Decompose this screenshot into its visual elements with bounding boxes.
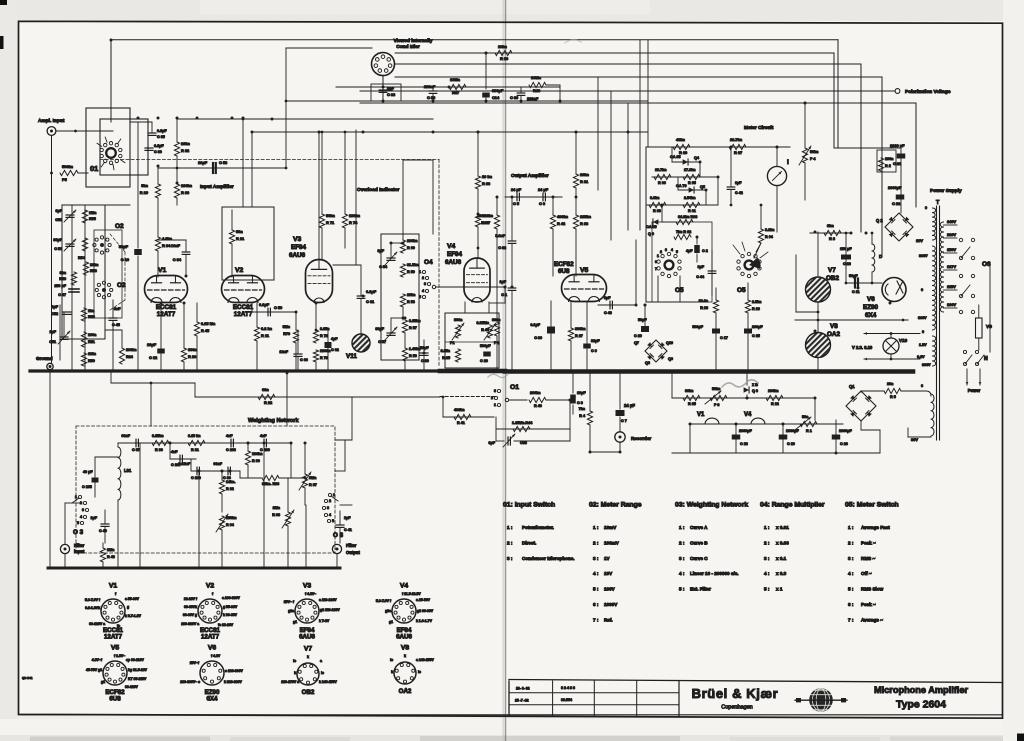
svg-text:O2: O2	[115, 223, 124, 230]
svg-text:k 7-8V: k 7-8V	[319, 619, 330, 623]
svg-text:g 55-99V: g 55-99V	[223, 605, 238, 609]
svg-text:R 96: R 96	[252, 459, 260, 463]
svg-text:20kn: 20kn	[181, 141, 190, 146]
svg-text:0: 0	[925, 206, 927, 210]
svg-text:40 μF: 40 μF	[83, 470, 93, 474]
svg-text:150kn: 150kn	[226, 516, 237, 520]
svg-text:50kn: 50kn	[810, 150, 819, 154]
svg-text:Curve B: Curve B	[690, 540, 708, 545]
svg-text:5: 5	[332, 519, 334, 523]
svg-text:R 56: R 56	[409, 354, 417, 358]
svg-text:V6: V6	[867, 296, 875, 303]
svg-text:05: Meter Switch: 05: Meter Switch	[845, 502, 899, 509]
svg-text:Type 2604: Type 2604	[896, 699, 946, 711]
svg-text:50μF: 50μF	[638, 318, 647, 322]
svg-text:C 62: C 62	[331, 348, 339, 352]
svg-text:C 54: C 54	[379, 265, 388, 269]
svg-text:V1: V1	[697, 412, 705, 418]
svg-text:C 41: C 41	[344, 528, 352, 532]
svg-text:5 :: 5 :	[764, 587, 770, 592]
svg-text:24 μF: 24 μF	[624, 403, 635, 408]
svg-text:15V~f: 15V~f	[190, 661, 200, 665]
svg-text:R 29: R 29	[140, 190, 149, 195]
svg-text:a: a	[320, 659, 322, 663]
svg-text:R 46: R 46	[481, 328, 489, 332]
svg-text:V7: V7	[304, 646, 313, 653]
svg-text:230-270V a: 230-270V a	[281, 680, 299, 684]
svg-text:C 22: C 22	[892, 201, 901, 206]
svg-text:4nF: 4nF	[171, 450, 178, 454]
svg-text:1 :: 1 :	[764, 525, 770, 530]
svg-text:1kn: 1kn	[88, 309, 95, 313]
svg-text:3.15kn: 3.15kn	[152, 434, 164, 438]
svg-text:C52: C52	[51, 312, 58, 316]
svg-text:V4: V4	[400, 583, 409, 590]
svg-text:R 60: R 60	[407, 246, 415, 250]
svg-text:Output Amplifier: Output Amplifier	[511, 173, 549, 179]
svg-text:V1: V1	[158, 267, 167, 274]
svg-text:5 :: 5 :	[848, 587, 854, 592]
svg-text:3: 3	[327, 506, 329, 510]
svg-text:Brüel & Kjær: Brüel & Kjær	[692, 686, 779, 701]
svg-text:2: 2	[329, 499, 331, 503]
svg-text:R 28: R 28	[752, 307, 760, 311]
svg-text:C 15: C 15	[752, 334, 760, 338]
svg-text:1μF: 1μF	[51, 305, 58, 309]
svg-text:L91: L91	[124, 468, 132, 473]
svg-text:2: 2	[660, 250, 662, 254]
svg-text:800kn: 800kn	[575, 327, 586, 331]
svg-text:Cond Micr: Cond Micr	[396, 44, 420, 50]
svg-text:03: Weighting Network: 03: Weighting Network	[675, 502, 748, 509]
svg-text:400kn: 400kn	[454, 408, 465, 412]
svg-text:1μF: 1μF	[49, 330, 56, 334]
svg-text:Average ~: Average ~	[861, 617, 883, 622]
svg-text:12AT7: 12AT7	[157, 311, 176, 318]
svg-text:R 90: R 90	[155, 448, 163, 452]
svg-text:10Mn: 10Mn	[531, 75, 542, 80]
svg-text:ap 90-110V: ap 90-110V	[126, 658, 144, 662]
svg-text:8.9kn: 8.9kn	[650, 196, 660, 200]
svg-text:90-110V: 90-110V	[125, 685, 139, 689]
svg-text:6 :: 6 :	[593, 602, 599, 607]
svg-text:0.1μF: 0.1μF	[530, 323, 540, 327]
svg-text:01: Input Switch: 01: Input Switch	[503, 502, 555, 509]
svg-text:f 4.8V: f 4.8V	[211, 654, 221, 658]
svg-text:C 13: C 13	[843, 262, 851, 266]
svg-text:C 44: C 44	[696, 275, 705, 279]
svg-text:4μF: 4μF	[331, 337, 338, 341]
svg-text:15V~ f: 15V~ f	[284, 600, 295, 604]
svg-text:500μF: 500μF	[480, 344, 491, 348]
svg-text:2 :: 2 :	[679, 540, 685, 545]
svg-text:Polarization Voltage: Polarization Voltage	[905, 89, 951, 95]
svg-text:C 3: C 3	[577, 401, 583, 405]
svg-text:Off ~: Off ~	[861, 571, 872, 576]
svg-text:14kn.: 14kn.	[226, 480, 235, 484]
svg-text:C 30: C 30	[534, 336, 542, 340]
svg-text:290-330V a: 290-330V a	[181, 622, 199, 626]
svg-text:O5: O5	[675, 287, 684, 294]
svg-text:EZ90: EZ90	[863, 304, 879, 311]
svg-text:24 μF: 24 μF	[538, 187, 549, 192]
svg-text:32kn. R93: 32kn. R93	[262, 482, 279, 486]
svg-text:V5: V5	[580, 267, 589, 274]
svg-text:C 7: C 7	[621, 419, 627, 423]
svg-text:10kn: 10kn	[580, 172, 589, 177]
svg-text:V3: V3	[293, 236, 302, 243]
svg-text:1 :: 1 :	[679, 525, 685, 530]
svg-text:1: 1	[419, 270, 421, 274]
svg-text:6AU6: 6AU6	[289, 252, 306, 259]
svg-text:Meter Circuit: Meter Circuit	[744, 125, 774, 131]
svg-text:R 72: R 72	[320, 334, 328, 338]
svg-text:1 :: 1 :	[848, 525, 854, 530]
svg-text:100V: 100V	[947, 302, 956, 307]
svg-text:Condenser Microphone.: Condenser Microphone.	[522, 556, 575, 561]
svg-text:C 58: C 58	[219, 160, 228, 165]
svg-text:C 32: C 32	[498, 246, 506, 250]
svg-text:R 42: R 42	[557, 221, 566, 226]
svg-text:Q10: Q10	[666, 341, 673, 345]
svg-text:R 67: R 67	[734, 150, 742, 155]
svg-text:Average Fast: Average Fast	[861, 525, 890, 530]
svg-text:k 1.0-1.7V: k 1.0-1.7V	[416, 619, 433, 623]
svg-text:C 17: C 17	[720, 336, 728, 340]
svg-text:3kn: 3kn	[60, 271, 67, 275]
svg-text:R 30: R 30	[500, 56, 508, 61]
svg-text:R 66: R 66	[658, 181, 666, 185]
svg-text:R49: R49	[59, 277, 66, 281]
svg-text:50μF: 50μF	[119, 244, 129, 249]
svg-text:R 22: R 22	[264, 400, 273, 405]
svg-text:V8: V8	[830, 323, 838, 330]
svg-text:4μF: 4μF	[686, 249, 693, 253]
svg-text:18V: 18V	[916, 238, 923, 243]
svg-text:19- 6- 62: 19- 6- 62	[516, 687, 530, 691]
svg-text:1: 1	[75, 495, 77, 499]
svg-text:C 19: C 19	[787, 442, 795, 446]
svg-text:C 30: C 30	[421, 359, 429, 363]
svg-text:3.15kn: 3.15kn	[409, 319, 421, 323]
svg-text:10kn: 10kn	[498, 44, 507, 49]
svg-text:3 :: 3 :	[507, 556, 513, 561]
svg-text:R51: R51	[88, 340, 95, 344]
svg-text:12AT7: 12AT7	[234, 311, 253, 318]
svg-text:500kn: 500kn	[62, 164, 74, 169]
svg-text:5.9-7.0V f: 5.9-7.0V f	[85, 598, 101, 602]
svg-text:R54: R54	[78, 256, 86, 260]
svg-text:3pF: 3pF	[55, 209, 62, 213]
svg-text:23.7kn: 23.7kn	[730, 137, 743, 142]
svg-text:Recorder: Recorder	[631, 436, 651, 441]
svg-text:3.15Mn: 3.15Mn	[476, 321, 489, 325]
svg-text:R 39: R 39	[481, 221, 489, 225]
svg-text:24 μF: 24 μF	[511, 187, 522, 192]
svg-text:R 94: R 94	[226, 523, 235, 527]
svg-text:R55: R55	[89, 217, 96, 221]
svg-text:3 :: 3 :	[679, 556, 685, 561]
svg-text:4: 4	[671, 248, 673, 252]
svg-text:45-75V g2: 45-75V g2	[86, 668, 102, 672]
svg-text:5 :: 5 :	[593, 587, 599, 592]
svg-text:OA2: OA2	[827, 331, 840, 338]
svg-text:10kn: 10kn	[407, 293, 416, 297]
svg-text:OB2: OB2	[826, 275, 839, 282]
svg-text:1.25Mn.R44: 1.25Mn.R44	[512, 421, 533, 425]
svg-text:1 :: 1 :	[593, 525, 599, 530]
svg-text:O 3: O 3	[73, 529, 84, 536]
svg-text:C55: C55	[520, 441, 527, 445]
svg-text:Filter: Filter	[346, 543, 357, 548]
svg-text:12-13V f: 12-13V f	[184, 597, 198, 601]
svg-text:Input Amplifier: Input Amplifier	[200, 184, 234, 190]
svg-text:1μF: 1μF	[344, 516, 351, 520]
svg-text:C 29: C 29	[634, 334, 642, 338]
svg-text:50pF: 50pF	[420, 346, 429, 350]
svg-text:k 0.7-1.2V: k 0.7-1.2V	[125, 614, 142, 618]
svg-text:x 1: x 1	[776, 587, 783, 592]
svg-text:6: 6	[655, 260, 657, 264]
svg-text:10kn: 10kn	[90, 263, 99, 267]
svg-text:10μF: 10μF	[147, 342, 157, 347]
svg-text:4: 4	[80, 515, 82, 519]
svg-text:R 1: R 1	[806, 429, 812, 433]
svg-text:ECC81: ECC81	[156, 304, 177, 311]
svg-text:6AU6: 6AU6	[299, 634, 315, 641]
svg-text:30pF: 30pF	[375, 327, 384, 331]
svg-text:C 60: C 60	[300, 358, 308, 362]
svg-text:3pF: 3pF	[377, 249, 384, 253]
svg-text:Z B: Z B	[752, 383, 758, 387]
svg-text:1300n: 1300n	[320, 349, 331, 353]
svg-text:90-120V a: 90-120V a	[89, 622, 105, 626]
svg-text:ECF82: ECF82	[554, 261, 574, 268]
svg-text:P 4: P 4	[810, 157, 816, 161]
svg-text:3.15nF: 3.15nF	[178, 462, 190, 466]
svg-text:C 35: C 35	[157, 135, 165, 139]
svg-text:R 26: R 26	[188, 354, 197, 359]
svg-text:30pF: 30pF	[53, 238, 62, 242]
svg-text:g1: g1	[389, 620, 393, 624]
svg-text:2 :: 2 :	[764, 540, 770, 545]
svg-text:1: 1	[494, 403, 496, 407]
svg-text:R52: R52	[88, 315, 95, 319]
svg-text:EF94: EF94	[447, 251, 463, 258]
svg-text:2000μF: 2000μF	[888, 185, 902, 190]
svg-text:C 6: C 6	[539, 201, 546, 206]
svg-text:111n: 111n	[88, 352, 97, 356]
svg-text:115V: 115V	[947, 284, 956, 289]
svg-text:k: k	[391, 670, 393, 674]
svg-text:150V: 150V	[947, 247, 956, 252]
svg-text:V1: V1	[109, 583, 118, 590]
svg-text:250 pF: 250 pF	[54, 284, 66, 288]
svg-text:R 57: R 57	[409, 326, 417, 330]
svg-text:2.54kn: 2.54kn	[684, 196, 696, 200]
svg-text:RMS Slow: RMS Slow	[861, 587, 884, 592]
svg-text:100kn: 100kn	[407, 239, 418, 243]
svg-text:4nF: 4nF	[226, 434, 233, 438]
svg-text:63n: 63n	[262, 387, 269, 392]
svg-text:4 :: 4 :	[679, 571, 685, 576]
svg-text:7kn: 7kn	[579, 407, 586, 411]
svg-text:Potentiometer.: Potentiometer.	[522, 525, 554, 530]
svg-text:R 38: R 38	[580, 221, 589, 226]
svg-text:Direct.: Direct.	[522, 540, 536, 545]
svg-text:C 20: C 20	[840, 442, 848, 446]
svg-text:200kn: 200kn	[126, 348, 137, 352]
svg-text:5Mn: 5Mn	[283, 325, 291, 329]
svg-text:R 65: R 65	[688, 181, 696, 185]
svg-text:12AT7: 12AT7	[104, 634, 123, 641]
svg-text:k 320-380V: k 320-380V	[224, 680, 242, 684]
svg-text:300V: 300V	[918, 316, 927, 320]
svg-text:C51: C51	[49, 340, 56, 344]
svg-text:100n: 100n	[88, 333, 97, 337]
svg-text:3.15n: 3.15n	[441, 349, 451, 353]
svg-text:12AT7: 12AT7	[201, 634, 220, 641]
svg-text:R 11: R 11	[261, 333, 270, 338]
svg-text:2: 2	[422, 276, 424, 280]
svg-text:04: Range Multiplier: 04: Range Multiplier	[760, 502, 825, 509]
svg-text:6U8: 6U8	[558, 268, 570, 275]
svg-text:C53: C53	[55, 218, 62, 222]
svg-text:6.2 kn: 6.2 kn	[261, 326, 273, 331]
svg-text:EF94: EF94	[291, 244, 307, 251]
svg-text:Ground: Ground	[36, 356, 53, 361]
svg-text:R 45: R 45	[201, 328, 210, 333]
svg-text:Ampl. Input: Ampl. Input	[38, 118, 65, 124]
svg-text:V11: V11	[346, 353, 357, 360]
svg-text:34.3kn R68: 34.3kn R68	[678, 215, 697, 219]
svg-text:100kn: 100kn	[181, 183, 193, 188]
svg-text:N: N	[984, 356, 988, 362]
svg-text:63nF: 63nF	[213, 462, 222, 466]
svg-text:V9: V9	[986, 324, 992, 330]
svg-text:1000μF: 1000μF	[839, 429, 852, 433]
svg-text:Viewed internally: Viewed internally	[393, 38, 432, 44]
svg-text:6AU6: 6AU6	[396, 634, 412, 641]
svg-text:Q8: Q8	[645, 361, 650, 365]
svg-text:8μF: 8μF	[604, 296, 611, 300]
svg-text:a: a	[405, 687, 407, 691]
svg-text:50kn: 50kn	[326, 213, 335, 218]
svg-text:10nF: 10nF	[171, 243, 181, 248]
svg-text:C 2: C 2	[702, 249, 708, 253]
svg-text:0: 0	[921, 384, 923, 388]
svg-text:R 25: R 25	[442, 356, 450, 360]
svg-text:1Mn: 1Mn	[107, 548, 115, 552]
svg-text:Ext. Filter: Ext. Filter	[690, 587, 711, 592]
svg-text:280-360V~ e: 280-360V~ e	[180, 680, 200, 684]
svg-text:10mV: 10mV	[604, 525, 617, 530]
svg-text:Weighting Network: Weighting Network	[248, 418, 299, 424]
svg-text:0.8-1.3Vk: 0.8-1.3Vk	[85, 606, 100, 610]
svg-text:5: 5	[419, 295, 421, 299]
svg-text:R 35: R 35	[688, 402, 696, 406]
svg-text:a 290-330V: a 290-330V	[222, 596, 240, 600]
svg-text:f 4.8V~: f 4.8V~	[305, 592, 316, 596]
svg-text:3 :: 3 :	[764, 556, 770, 561]
svg-text:C 1: C 1	[501, 293, 507, 297]
svg-text:2 :: 2 :	[593, 540, 599, 545]
svg-text:a 110-130V: a 110-130V	[319, 598, 337, 602]
svg-text:6.3V: 6.3V	[917, 355, 925, 359]
svg-text:50n: 50n	[802, 415, 809, 419]
svg-text:R 59: R 59	[407, 270, 415, 274]
svg-text:5.9-7.0V f: 5.9-7.0V f	[376, 599, 392, 603]
svg-text:0.1μF: 0.1μF	[154, 144, 164, 148]
svg-text:V7: V7	[828, 267, 836, 274]
svg-text:Q1: Q1	[849, 384, 855, 389]
svg-text:220nF: 220nF	[527, 96, 539, 101]
svg-text:e 280-360V: e 280-360V	[225, 669, 243, 673]
svg-text:R 27: R 27	[575, 334, 583, 338]
svg-text:5.6nF: 5.6nF	[495, 234, 505, 238]
svg-text:2 :: 2 :	[507, 540, 513, 545]
svg-text:R 97: R 97	[309, 483, 317, 487]
svg-text:k: k	[294, 671, 296, 675]
svg-text:ic: ic	[418, 670, 421, 674]
svg-text:48kn: 48kn	[676, 137, 685, 142]
svg-text:800n: 800n	[188, 347, 197, 352]
svg-text:R48: R48	[533, 88, 541, 93]
svg-text:R50: R50	[88, 359, 95, 363]
svg-text:QB 0041: QB 0041	[22, 676, 33, 680]
svg-text:C 43: C 43	[604, 311, 612, 315]
svg-text:3pF: 3pF	[488, 441, 495, 445]
svg-text:8 2 4 3 3: 8 2 4 3 3	[561, 686, 575, 690]
svg-text:7 :: 7 :	[593, 617, 599, 622]
svg-text:1000μF: 1000μF	[739, 429, 752, 433]
svg-text:100kn: 100kn	[768, 389, 779, 393]
svg-text:R 71: R 71	[326, 220, 335, 225]
svg-text:C 16: C 16	[480, 359, 488, 363]
svg-text:02: Meter Range: 02: Meter Range	[589, 502, 642, 509]
svg-text:220V: 220V	[947, 232, 956, 237]
svg-text:x 0.1: x 0.1	[776, 556, 787, 561]
svg-text:2: 2	[491, 396, 493, 400]
svg-text:OB2: OB2	[302, 689, 315, 696]
svg-text:9Mn: 9Mn	[309, 476, 317, 480]
svg-text:g2a: g2a	[288, 609, 294, 613]
svg-text:I: I	[787, 159, 789, 166]
svg-text:a 55-90V: a 55-90V	[125, 597, 140, 601]
svg-text:V10: V10	[899, 338, 908, 343]
svg-text:Q 2: Q 2	[876, 218, 883, 223]
svg-text:Peak ~: Peak ~	[861, 602, 876, 607]
svg-text:3: 3	[494, 389, 496, 393]
svg-text:1Mn: 1Mn	[89, 211, 97, 215]
svg-text:0.1μF: 0.1μF	[157, 129, 167, 133]
svg-text:4.8V~f: 4.8V~f	[92, 658, 103, 662]
svg-text:25 -7 -62: 25 -7 -62	[515, 699, 529, 703]
svg-text:R 61: R 61	[688, 209, 696, 213]
svg-text:1V: 1V	[604, 556, 611, 561]
svg-text:a 25-50V: a 25-50V	[416, 598, 431, 602]
svg-text:C 38: C 38	[427, 95, 436, 100]
svg-text:4 :: 4 :	[848, 571, 854, 576]
svg-text:O 3: O 3	[333, 532, 344, 539]
svg-text:g: g	[127, 605, 129, 609]
svg-text:60-95Vk: 60-95Vk	[184, 605, 197, 609]
svg-text:R 34: R 34	[162, 243, 171, 248]
svg-text:3.15n: 3.15n	[320, 327, 330, 331]
svg-text:3 :: 3 :	[593, 556, 599, 561]
svg-text:3 :: 3 :	[848, 556, 854, 561]
svg-text:R 43: R 43	[107, 555, 115, 559]
